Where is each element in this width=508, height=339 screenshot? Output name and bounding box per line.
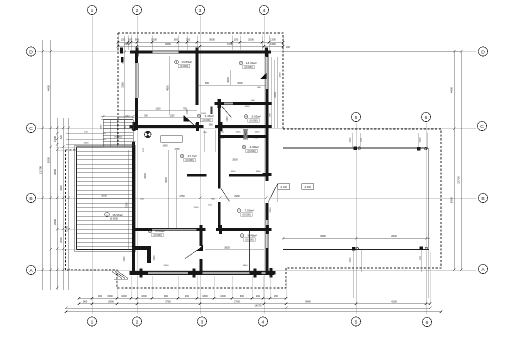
section mark circle on C wall bbox=[145, 131, 152, 138]
svg-text:190: 190 bbox=[98, 295, 103, 298]
svg-text:1500: 1500 bbox=[107, 295, 113, 298]
svg-text:200: 200 bbox=[185, 295, 190, 298]
dimension chain bottom 3 bbox=[65, 304, 432, 310]
grid axis column 5 bbox=[355, 123, 357, 314]
svg-text:1500: 1500 bbox=[124, 256, 126, 262]
interior dim chain room7 vertical bbox=[227, 70, 230, 85]
svg-text:200: 200 bbox=[286, 46, 291, 49]
svg-text:3800: 3800 bbox=[53, 169, 57, 175]
svg-text:16.56м²: 16.56м² bbox=[112, 213, 123, 217]
svg-text:8300: 8300 bbox=[450, 196, 454, 203]
terrace column dims bottom bbox=[350, 255, 422, 262]
door swing east wall to terrace bbox=[268, 184, 278, 203]
dimension chain left 2 bbox=[47, 40, 52, 290]
roof dashed outline left edge bbox=[66, 33, 287, 288]
interior wall room6-room7 bbox=[195, 50, 198, 127]
svg-text:27.7м²: 27.7м² bbox=[188, 154, 197, 158]
svg-text:1800: 1800 bbox=[256, 171, 262, 173]
svg-text:1600: 1600 bbox=[220, 295, 226, 298]
axis bubble B right bbox=[478, 193, 487, 202]
svg-text:150: 150 bbox=[274, 295, 279, 298]
room label 5 bbox=[197, 114, 214, 122]
axis bubble A left bbox=[26, 265, 35, 274]
svg-text:5940: 5940 bbox=[305, 299, 311, 303]
porch steps south-west bbox=[112, 272, 128, 280]
deck inner dim line bbox=[126, 150, 128, 249]
row C wall bbox=[131, 125, 268, 128]
svg-text:900: 900 bbox=[164, 295, 169, 298]
interior dims above C wall bbox=[187, 109, 229, 127]
svg-text:7700: 7700 bbox=[65, 226, 69, 232]
svg-text:13.85м²: 13.85м² bbox=[181, 60, 192, 64]
svg-text:1150: 1150 bbox=[101, 124, 103, 129]
svg-text:3100: 3100 bbox=[155, 109, 161, 111]
door opening in east wall bbox=[265, 181, 269, 203]
interior dim chain axis B through hall bbox=[179, 195, 267, 199]
dim lines left of steps bbox=[66, 132, 106, 145]
svg-text:2000: 2000 bbox=[245, 106, 251, 108]
interior dim chain room6 horizontal bbox=[118, 109, 197, 118]
svg-text:4750: 4750 bbox=[174, 149, 180, 151]
dimension chain right 1 bbox=[450, 50, 456, 271]
column junction x201/y229 bbox=[196, 225, 205, 234]
column at east wall y103 bbox=[262, 99, 271, 108]
svg-text:800: 800 bbox=[205, 82, 210, 85]
svg-text:2940: 2940 bbox=[391, 234, 397, 238]
svg-text:4100: 4100 bbox=[391, 299, 397, 303]
column at axis 4/D bbox=[262, 47, 271, 56]
entrance steps west bbox=[103, 120, 133, 148]
svg-text:2385: 2385 bbox=[121, 82, 124, 88]
hall small dims bbox=[140, 132, 260, 201]
svg-text:3: 3 bbox=[201, 319, 204, 325]
porch dim 1500 rotated bbox=[124, 255, 156, 262]
elevation box -0.450 bbox=[302, 184, 314, 190]
svg-text:(0.000): (0.000) bbox=[244, 65, 252, 69]
svg-text:2: 2 bbox=[136, 319, 139, 325]
interior wall y141 bbox=[219, 135, 267, 138]
interior dims room4 small bbox=[143, 147, 213, 209]
terrace column extension lines bbox=[353, 133, 429, 298]
door swing room7 bbox=[221, 189, 230, 202]
svg-text:8.54м²: 8.54м² bbox=[156, 229, 165, 233]
axis bubble 4 bottom bbox=[258, 317, 267, 326]
svg-text:120: 120 bbox=[60, 134, 63, 139]
svg-text:2500: 2500 bbox=[237, 82, 243, 85]
svg-text:12700: 12700 bbox=[457, 176, 461, 184]
column at axis 3/D bbox=[192, 47, 201, 56]
svg-text:D: D bbox=[481, 49, 485, 55]
svg-text:2000: 2000 bbox=[60, 237, 63, 243]
interior dims right of east wall bbox=[269, 46, 290, 213]
svg-text:3600: 3600 bbox=[209, 38, 215, 42]
svg-text:3750: 3750 bbox=[165, 299, 171, 303]
hall closet rectangle bbox=[161, 136, 183, 143]
svg-text:1500: 1500 bbox=[255, 132, 261, 134]
south wall pier extensions bbox=[135, 271, 274, 275]
svg-text:3600: 3600 bbox=[149, 126, 155, 128]
room label 7 top bbox=[239, 61, 257, 69]
svg-text:2000: 2000 bbox=[243, 126, 249, 128]
dimension chain top 2 bbox=[117, 42, 285, 47]
svg-text:2800: 2800 bbox=[232, 159, 238, 162]
north wall bbox=[130, 50, 269, 53]
dimension chain top 1 bbox=[117, 38, 285, 44]
right terrace bottom edge bbox=[283, 249, 429, 251]
column south wall x252 bbox=[250, 268, 259, 277]
terrace column 6 top bbox=[417, 147, 427, 151]
svg-text:4400: 4400 bbox=[450, 86, 454, 93]
svg-text:200: 200 bbox=[128, 38, 133, 42]
svg-text:8300: 8300 bbox=[47, 156, 51, 163]
svg-text:1300: 1300 bbox=[84, 143, 90, 145]
window in east wall upper bbox=[266, 57, 269, 89]
column x221/C bbox=[216, 122, 225, 131]
svg-text:(0.000): (0.000) bbox=[247, 149, 255, 153]
column at axis 3/C bbox=[193, 122, 202, 131]
svg-text:1500: 1500 bbox=[280, 72, 282, 78]
svg-text:(0.000): (0.000) bbox=[242, 213, 250, 217]
svg-text:3900: 3900 bbox=[320, 234, 326, 238]
grid axis column 2 bbox=[136, 16, 138, 314]
svg-text:2600: 2600 bbox=[164, 265, 170, 267]
svg-text:1800: 1800 bbox=[243, 265, 249, 267]
svg-text:C: C bbox=[29, 126, 33, 132]
svg-text:13.34м²: 13.34м² bbox=[246, 61, 257, 65]
dim 3600 above hall bbox=[149, 126, 249, 128]
window in east wall lower bbox=[266, 220, 269, 248]
svg-text:(0.000): (0.000) bbox=[245, 238, 253, 242]
interior dim chain room6 vertical bbox=[166, 56, 169, 115]
dimension chain left outer bbox=[39, 40, 44, 290]
svg-text:2: 2 bbox=[136, 8, 139, 14]
svg-text:1.46м²: 1.46м² bbox=[205, 114, 214, 118]
svg-text:1600: 1600 bbox=[141, 295, 147, 298]
west wall jog corner bbox=[132, 246, 151, 272]
terrace column dims top bbox=[350, 137, 422, 143]
terrace deck dashed border bbox=[75, 145, 136, 252]
svg-text:2900: 2900 bbox=[234, 195, 240, 198]
svg-text:900: 900 bbox=[240, 295, 245, 298]
svg-text:1000: 1000 bbox=[231, 171, 237, 173]
axis bubble D left bbox=[26, 47, 35, 56]
interior dim hall verticals bbox=[144, 150, 176, 228]
svg-text:4300: 4300 bbox=[60, 185, 63, 191]
south wall bbox=[130, 271, 274, 275]
svg-text:5: 5 bbox=[355, 319, 358, 325]
grid axis row B bbox=[37, 197, 476, 199]
grid axis column 3 bbox=[199, 16, 201, 314]
steps dim lines above bbox=[101, 115, 135, 129]
grid axis row A bbox=[37, 269, 476, 271]
dimension chain left 4 bbox=[60, 118, 64, 290]
room label 9 bbox=[242, 145, 259, 153]
svg-text:5000: 5000 bbox=[165, 177, 168, 183]
grid axis column 6 bbox=[425, 123, 427, 314]
steps label bbox=[114, 137, 123, 139]
room label 7 lower bbox=[237, 209, 254, 217]
svg-text:2350: 2350 bbox=[124, 42, 130, 46]
svg-text:1300: 1300 bbox=[270, 38, 276, 42]
svg-text:4: 4 bbox=[262, 319, 265, 325]
column at east wall y229 bbox=[262, 225, 271, 234]
door swing hall to room3 bbox=[185, 247, 202, 259]
room label 8 upper bbox=[244, 115, 261, 123]
room label 4 hall bbox=[180, 154, 197, 162]
svg-text:150: 150 bbox=[121, 38, 126, 42]
svg-text:2690: 2690 bbox=[108, 299, 114, 303]
hall closet dims bbox=[162, 145, 180, 151]
terrace south dimension line bbox=[282, 234, 430, 240]
dimension chain bottom 4 bbox=[65, 310, 443, 313]
svg-text:3: 3 bbox=[199, 8, 202, 14]
room label 1 terrace bbox=[105, 212, 123, 220]
interior wall y103 bbox=[218, 102, 268, 105]
svg-text:14270: 14270 bbox=[254, 304, 262, 308]
axis bubble 5 bottom bbox=[351, 317, 360, 326]
dimension chain bottom 2 bbox=[78, 299, 432, 305]
axis bubble C left bbox=[26, 123, 35, 132]
svg-text:1150: 1150 bbox=[170, 116, 176, 118]
right terrace right edge bbox=[427, 148, 429, 250]
column at axis 2/A wall bbox=[136, 268, 145, 277]
svg-text:1100: 1100 bbox=[220, 153, 222, 158]
roof dashed outline right terrace block bbox=[283, 129, 441, 288]
svg-text:6950: 6950 bbox=[165, 42, 171, 46]
axis bubble 4 top bbox=[259, 5, 268, 14]
svg-text:1070: 1070 bbox=[350, 257, 352, 263]
window in west wall upper bbox=[135, 63, 138, 98]
extension lines to bottom chains bbox=[117, 252, 430, 304]
svg-text:7.00м²: 7.00м² bbox=[245, 209, 254, 213]
axis bubble 1 top bbox=[87, 5, 96, 14]
svg-text:2000: 2000 bbox=[248, 38, 254, 42]
room label 2 bbox=[240, 234, 257, 242]
interior wall x201 lower bbox=[199, 228, 202, 274]
column at axis 2/C bbox=[129, 122, 138, 131]
svg-text:3600: 3600 bbox=[101, 194, 107, 198]
column at axis 2/D bbox=[132, 47, 141, 56]
door leaf triangle 1 bbox=[260, 73, 267, 80]
svg-text:1500: 1500 bbox=[154, 255, 156, 261]
interior dim chain left of west wall bbox=[121, 36, 125, 129]
west wall lower bbox=[132, 127, 135, 253]
svg-text:B: B bbox=[29, 196, 32, 202]
axis bubble C right bbox=[477, 121, 486, 130]
svg-text:1800: 1800 bbox=[202, 295, 208, 298]
column at east wall y174 bbox=[262, 170, 271, 179]
svg-text:12700: 12700 bbox=[39, 165, 43, 174]
svg-text:200: 200 bbox=[234, 38, 239, 42]
extension lines above north wall bbox=[118, 36, 283, 51]
svg-text:(0.000): (0.000) bbox=[202, 118, 210, 122]
svg-text:1150: 1150 bbox=[125, 116, 130, 118]
svg-text:D: D bbox=[29, 49, 33, 55]
svg-text:(0.000): (0.000) bbox=[153, 233, 161, 237]
door swing C wall to room6 bbox=[184, 116, 197, 128]
interior wall y174 right bbox=[229, 174, 267, 177]
svg-text:2600: 2600 bbox=[236, 132, 242, 134]
dim 1200 room5 bbox=[201, 113, 207, 115]
axis bubble 3 top bbox=[195, 5, 204, 14]
svg-text:900: 900 bbox=[135, 38, 140, 42]
room label 6 bbox=[175, 60, 193, 68]
interior wall y174 left stub bbox=[187, 174, 207, 177]
interior dims small top-middle bbox=[220, 100, 261, 173]
axis bubble 2 bottom bbox=[132, 317, 141, 326]
door leaf triangle 3 bbox=[197, 245, 204, 252]
svg-text:2700: 2700 bbox=[234, 299, 240, 303]
dimension chain left 5 bbox=[65, 118, 70, 290]
column at axis 3/A wall bbox=[189, 268, 198, 277]
svg-text:4750: 4750 bbox=[179, 195, 185, 198]
grid axis row C bbox=[37, 127, 476, 129]
extension line right from row D bbox=[283, 51, 461, 53]
terrace column 5 top bbox=[354, 146, 361, 150]
svg-text:960: 960 bbox=[83, 299, 88, 303]
thin partition x249 bbox=[249, 231, 251, 271]
svg-text:6: 6 bbox=[426, 320, 429, 326]
svg-text:1200: 1200 bbox=[227, 116, 229, 122]
terrace width dimension bbox=[101, 194, 107, 198]
svg-text:5: 5 bbox=[355, 115, 358, 121]
grid axis row D bbox=[37, 51, 476, 53]
svg-text:7500: 7500 bbox=[126, 202, 128, 208]
svg-text:2900: 2900 bbox=[53, 219, 57, 225]
door extension lines C wall bbox=[204, 130, 215, 152]
column east/C bbox=[262, 122, 271, 131]
svg-text:1950: 1950 bbox=[270, 42, 276, 46]
svg-text:4400: 4400 bbox=[47, 84, 51, 91]
svg-text:3000: 3000 bbox=[144, 173, 147, 179]
axis bubble D right bbox=[478, 47, 487, 56]
svg-text:(0.000): (0.000) bbox=[180, 64, 188, 68]
svg-text:6700: 6700 bbox=[227, 42, 233, 46]
east wall bbox=[266, 50, 269, 274]
svg-text:(0.000): (0.000) bbox=[249, 119, 257, 123]
axis bubble B left bbox=[26, 193, 35, 202]
svg-text:2000: 2000 bbox=[270, 207, 272, 213]
axis bubble 6 mid bbox=[421, 112, 430, 121]
svg-text:C: C bbox=[480, 124, 484, 130]
axis bubble 3 bottom bbox=[197, 317, 206, 326]
terrace deck outline bbox=[77, 147, 134, 250]
svg-text:5.05м²: 5.05м² bbox=[252, 115, 261, 119]
roof dashed outline upper-left block bbox=[118, 33, 283, 129]
small duct near room 5 bbox=[210, 107, 212, 115]
grid axis column 4 bbox=[263, 16, 265, 314]
interior dim room2 horizontal bbox=[205, 246, 264, 249]
grid axis column 1 bbox=[91, 16, 93, 314]
west wall upper bbox=[135, 50, 138, 130]
interior wall y229 hall-south rooms bbox=[133, 228, 271, 231]
svg-text:6: 6 bbox=[425, 115, 428, 121]
interior dim room7 horizontal bbox=[197, 82, 266, 89]
svg-text:-0.450: -0.450 bbox=[304, 186, 312, 189]
ventilation shaft hatch bbox=[243, 129, 247, 140]
dimension chain bottom 1 bbox=[78, 295, 288, 300]
interior dims near south wall bbox=[164, 265, 249, 267]
door opening in row C wall bbox=[204, 125, 216, 129]
svg-text:1000: 1000 bbox=[121, 295, 127, 298]
svg-text:3835: 3835 bbox=[224, 246, 230, 249]
column junction x220/y229 bbox=[216, 225, 225, 234]
svg-text:3600: 3600 bbox=[227, 77, 230, 83]
svg-text:B: B bbox=[481, 196, 484, 202]
terrace deck boards bbox=[77, 151, 133, 247]
svg-text:4.98м²: 4.98м² bbox=[250, 145, 259, 149]
door leaf triangle 2 bbox=[184, 116, 190, 122]
column at axis 4/A wall bbox=[266, 268, 275, 277]
door swing room5 bbox=[222, 106, 232, 118]
door opening in wall y229 bbox=[206, 228, 219, 231]
window band in wall y229 bbox=[152, 228, 197, 231]
svg-text:1500: 1500 bbox=[53, 136, 57, 142]
porch posts NW bbox=[118, 43, 123, 63]
axis bubble 5 mid bbox=[351, 112, 360, 121]
entrance door opening in west wall bbox=[132, 130, 136, 142]
svg-text:1400: 1400 bbox=[162, 145, 168, 147]
svg-text:-0.150: -0.150 bbox=[280, 186, 288, 189]
dimension chain left 3 bbox=[53, 118, 58, 290]
terrace column 5 bottom bbox=[352, 247, 359, 251]
svg-text:200: 200 bbox=[186, 38, 191, 42]
right terrace top edge bbox=[283, 147, 428, 149]
extension lines left bbox=[56, 147, 77, 270]
svg-text:200: 200 bbox=[256, 295, 261, 298]
axis bubble 2 top bbox=[132, 5, 141, 14]
terrace column 6 bottom bbox=[420, 247, 428, 251]
svg-text:4800: 4800 bbox=[166, 85, 169, 91]
axis bubble 6 bottom bbox=[422, 317, 431, 326]
svg-text:1070: 1070 bbox=[350, 137, 352, 143]
svg-text:1070: 1070 bbox=[420, 137, 422, 143]
svg-text:1700: 1700 bbox=[187, 109, 189, 115]
dimension chain right 2 bbox=[457, 50, 463, 271]
interior wall x219 bbox=[217, 102, 220, 229]
svg-text:1200: 1200 bbox=[194, 207, 200, 209]
svg-text:1: 1 bbox=[91, 8, 94, 14]
svg-text:8.48м²: 8.48м² bbox=[248, 234, 257, 238]
column junction x219/y103 bbox=[215, 99, 224, 108]
svg-text:4: 4 bbox=[263, 8, 266, 14]
elevation box -0.150 bbox=[278, 184, 290, 190]
svg-text:(0.000): (0.000) bbox=[185, 158, 193, 162]
svg-text:1: 1 bbox=[91, 319, 94, 325]
svg-text:150x300: 150x300 bbox=[114, 137, 123, 139]
axis bubble 1 bottom bbox=[87, 317, 96, 326]
axis bubble A right bbox=[478, 264, 487, 273]
svg-text:(0.000): (0.000) bbox=[110, 217, 118, 221]
window in north wall bbox=[153, 50, 179, 53]
room label 3 bbox=[148, 229, 165, 237]
